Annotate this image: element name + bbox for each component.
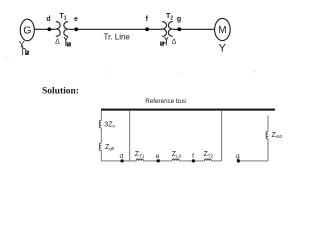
svg-text:e: e bbox=[74, 16, 78, 23]
svg-text:e: e bbox=[156, 153, 160, 160]
svg-text:Δ: Δ bbox=[172, 39, 177, 46]
svg-text:M: M bbox=[218, 25, 226, 36]
svg-text:Reference bus: Reference bus bbox=[145, 98, 186, 105]
svg-text:T1: T1 bbox=[60, 13, 67, 22]
svg-text:d: d bbox=[119, 153, 123, 160]
svg-text:Y: Y bbox=[219, 43, 227, 55]
svg-text:ZT1: ZT1 bbox=[135, 151, 145, 158]
svg-text:g: g bbox=[177, 16, 181, 23]
svg-text:T2: T2 bbox=[166, 13, 173, 22]
svg-text:ZT2: ZT2 bbox=[204, 151, 214, 158]
svg-text:g: g bbox=[236, 153, 240, 160]
svg-text:Zg0: Zg0 bbox=[105, 144, 115, 151]
svg-text:Zm0: Zm0 bbox=[272, 132, 283, 139]
svg-text:d: d bbox=[46, 16, 50, 23]
svg-text:Δ: Δ bbox=[55, 39, 60, 46]
svg-text:Tr. Line: Tr. Line bbox=[104, 32, 131, 41]
svg-text:G: G bbox=[23, 24, 31, 36]
svg-text:ZL0: ZL0 bbox=[172, 151, 182, 158]
svg-text:f: f bbox=[146, 16, 149, 23]
svg-text:3Zn: 3Zn bbox=[104, 122, 115, 129]
svg-text:f: f bbox=[192, 153, 194, 160]
svg-text:Solution:: Solution: bbox=[42, 87, 79, 97]
